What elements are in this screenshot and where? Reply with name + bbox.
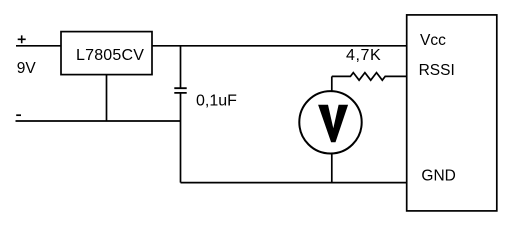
svg-text:GND: GND [421,168,455,185]
receiver module U2 body [407,15,497,211]
battery positive terminal symbol + [18,35,26,43]
wire positive input to regulator [16,45,61,47]
battery negative terminal symbol - [16,114,21,116]
wire ground rail to GND pin [181,182,407,184]
wire regulator ground pin [106,75,108,121]
svg-text:L7805CV: L7805CV [76,47,144,64]
voltmeter M1 circle [299,91,361,153]
wire negative input rail [16,120,181,122]
wire capacitor top lead [180,46,182,88]
svg-text:Vcc: Vcc [420,32,446,49]
svg-text:4,7K: 4,7K [346,47,381,64]
voltage regulator U1 body [61,32,152,75]
svg-text:9V: 9V [17,60,37,77]
svg-text:RSSI: RSSI [419,62,455,79]
wire voltmeter bottom lead [331,153,333,182]
resistor R1 zigzag [332,73,407,81]
wire regulator output to Vcc pin [152,45,407,47]
svg-text:0,1uF: 0,1uF [196,93,237,110]
capacitor C1 plates [174,88,186,93]
wire resistor to voltmeter top [331,76,333,92]
voltmeter M1 letter V [318,105,348,143]
wire capacitor bottom lead [180,93,182,183]
